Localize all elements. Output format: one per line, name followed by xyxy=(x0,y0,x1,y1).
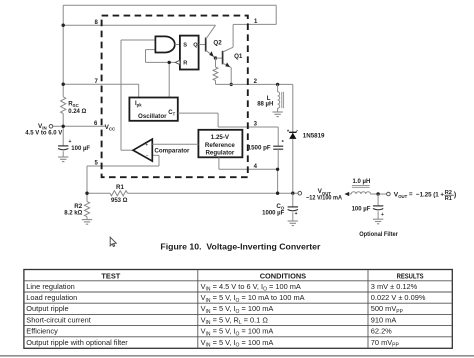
svg-text:−1.25 (1 +: −1.25 (1 + xyxy=(416,192,444,199)
svg-text:1000 µF: 1000 µF xyxy=(262,210,284,216)
svg-text:TEST: TEST xyxy=(101,271,120,280)
svg-text:Figure 10. Voltage-Inverting: Figure 10. Voltage-Inverting Converter xyxy=(160,243,320,252)
svg-text:R: R xyxy=(183,60,187,66)
svg-text:+: + xyxy=(381,212,384,218)
svg-text:953 Ω: 953 Ω xyxy=(111,198,128,204)
svg-text:VIN = 5 V, IO = 100 mA: VIN = 5 V, IO = 100 mA xyxy=(201,304,274,315)
svg-text:1500 pF: 1500 pF xyxy=(248,145,271,152)
svg-text:8.2 kΩ: 8.2 kΩ xyxy=(64,211,82,217)
svg-text:88 µH: 88 µH xyxy=(257,102,273,108)
svg-text:Short-circuit current: Short-circuit current xyxy=(26,315,90,324)
svg-text:4.5 V to 6.0 V: 4.5 V to 6.0 V xyxy=(25,131,62,137)
svg-text:Optional Filter: Optional Filter xyxy=(359,231,398,238)
svg-text:Output ripple with optional fi: Output ripple with optional filter xyxy=(26,338,128,347)
svg-text:500 mVPP: 500 mVPP xyxy=(371,304,404,315)
svg-text:70 mVPP: 70 mVPP xyxy=(371,338,400,349)
svg-text:R1: R1 xyxy=(116,184,124,191)
svg-text:910 mA: 910 mA xyxy=(371,315,397,324)
svg-text:Line regulation: Line regulation xyxy=(26,282,75,291)
svg-text:Comparator: Comparator xyxy=(154,148,190,155)
svg-text:=: = xyxy=(409,191,413,198)
svg-text:1.0 µH: 1.0 µH xyxy=(353,179,371,185)
svg-text:Regulator: Regulator xyxy=(205,150,234,157)
svg-text:Oscillator: Oscillator xyxy=(138,113,167,120)
svg-text:VOUT: VOUT xyxy=(394,191,408,199)
svg-text:Efficiency: Efficiency xyxy=(26,327,58,336)
svg-text:−: − xyxy=(146,153,149,159)
svg-text:RESULTS: RESULTS xyxy=(397,271,424,280)
svg-text:+: + xyxy=(145,143,148,149)
svg-text:1.25-V: 1.25-V xyxy=(211,134,230,141)
svg-text:1N5819: 1N5819 xyxy=(303,132,325,139)
svg-text:VIN = 5 V, IO = 100 mA: VIN = 5 V, IO = 100 mA xyxy=(201,338,274,349)
svg-text:VIN = 5 V, RL = 0.1 Ω: VIN = 5 V, RL = 0.1 Ω xyxy=(201,315,269,326)
svg-text:+: + xyxy=(69,139,72,145)
svg-text:Q2: Q2 xyxy=(213,39,222,46)
svg-text:0.24 Ω: 0.24 Ω xyxy=(68,109,86,115)
svg-text:S: S xyxy=(183,42,187,48)
svg-text:R1: R1 xyxy=(445,196,452,202)
svg-text:VIN = 5 V, IO = 100 mA: VIN = 5 V, IO = 100 mA xyxy=(201,327,274,338)
svg-text:Q1: Q1 xyxy=(234,53,243,60)
svg-text:62.2%: 62.2% xyxy=(371,327,392,336)
svg-text:R2: R2 xyxy=(74,203,82,210)
svg-text:Load regulation: Load regulation xyxy=(26,293,77,302)
svg-text:Reference: Reference xyxy=(205,142,235,149)
svg-text:−12 V/100 mA: −12 V/100 mA xyxy=(306,195,342,202)
svg-text:CT: CT xyxy=(168,110,175,117)
svg-text:VIN = 5 V, IO = 10 mA to 100 m: VIN = 5 V, IO = 10 mA to 100 mA xyxy=(201,293,305,304)
svg-text:VCC: VCC xyxy=(105,124,116,132)
svg-text:*: * xyxy=(282,140,285,146)
svg-text:): ) xyxy=(454,192,456,199)
svg-text:+: + xyxy=(295,211,298,217)
svg-text:100 µF: 100 µF xyxy=(71,146,90,152)
svg-text:VIN: VIN xyxy=(38,123,47,131)
svg-text:0.022 V ± 0.09%: 0.022 V ± 0.09% xyxy=(371,293,426,302)
svg-text:3 mV ± 0.12%: 3 mV ± 0.12% xyxy=(371,282,418,291)
svg-text:Ipk: Ipk xyxy=(135,101,142,108)
svg-text:100 µF: 100 µF xyxy=(352,206,371,212)
svg-text:VIN = 4.5 V to 6 V, IO = 100 m: VIN = 4.5 V to 6 V, IO = 100 mA xyxy=(201,282,301,293)
svg-text:CONDITIONS: CONDITIONS xyxy=(260,271,306,280)
svg-text:Q: Q xyxy=(193,42,198,48)
svg-text:CO: CO xyxy=(276,203,284,211)
svg-text:Output ripple: Output ripple xyxy=(26,304,68,313)
svg-text:RSC: RSC xyxy=(68,100,79,108)
